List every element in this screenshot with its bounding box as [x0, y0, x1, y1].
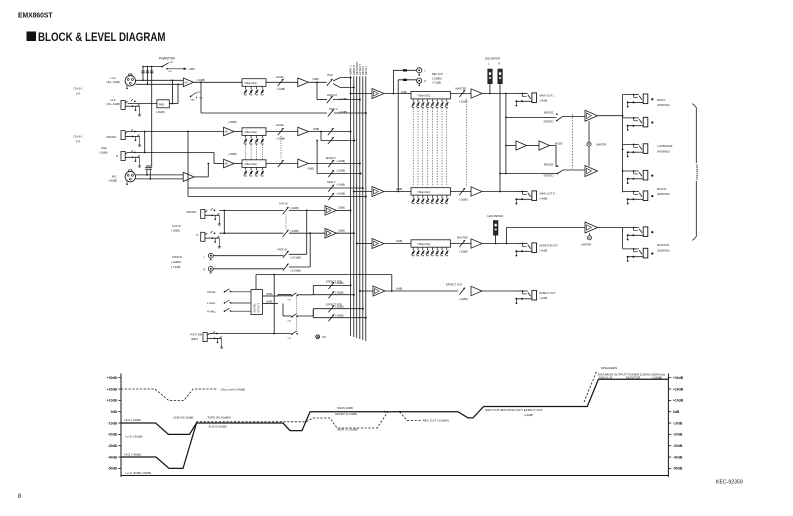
svg-text:LEVEL: LEVEL: [276, 123, 285, 127]
svg-text:(-10dB): (-10dB): [459, 198, 468, 202]
svg-text:TAPE IN: TAPE IN: [172, 255, 182, 259]
svg-text:SPEAKERS: SPEAKERS: [601, 366, 617, 370]
svg-text:(-10dB): (-10dB): [337, 168, 346, 172]
svg-text:EFFECT(-10dB): EFFECT(-10dB): [335, 412, 357, 416]
svg-text:H HALL: H HALL: [207, 309, 217, 313]
svg-text:LEVEL: LEVEL: [276, 75, 285, 79]
svg-text:(-10dB): (-10dB): [335, 290, 344, 294]
svg-text:+48V: +48V: [188, 67, 195, 71]
svg-text:LED METER: LED METER: [488, 214, 503, 218]
svg-text:(-10dB): (-10dB): [459, 100, 468, 104]
svg-text:-20dB: -20dB: [673, 433, 683, 437]
svg-text:(-10dB): (-10dB): [277, 87, 286, 91]
svg-text:CH IN: CH IN: [74, 135, 82, 139]
svg-text:MONITOR: MONITOR: [626, 375, 641, 379]
svg-text:0dB: 0dB: [673, 410, 680, 414]
svg-text:(-10dB): (-10dB): [228, 152, 237, 156]
svg-text:LINE: LINE: [101, 146, 107, 150]
svg-text:MAIN OUT L: MAIN OUT L: [540, 94, 555, 98]
svg-text:(-10dBV): (-10dBV): [432, 77, 442, 80]
svg-text:(0dB): (0dB): [266, 292, 272, 296]
svg-text:(0dB): (0dB): [313, 127, 319, 131]
svg-text:REC OUT (-10dBV): REC OUT (-10dBV): [423, 419, 449, 423]
svg-text:TAPE IN(-10dBV): TAPE IN(-10dBV): [208, 416, 231, 420]
svg-text:MON 1: MON 1: [364, 65, 368, 74]
svg-text:STEREO: STEREO: [544, 121, 554, 124]
svg-text:7-8: 7-8: [76, 139, 81, 143]
svg-text:(+4dB): (+4dB): [540, 99, 548, 103]
svg-text:+20dB: +20dB: [107, 387, 118, 391]
svg-text:MIC: MIC: [112, 175, 117, 179]
svg-text:AUX IN: AUX IN: [172, 224, 181, 228]
svg-text:8: 8: [18, 493, 22, 500]
svg-text:(+24dB): (+24dB): [652, 375, 663, 379]
svg-text:(-10dB): (-10dB): [337, 182, 346, 186]
svg-text:MON 2: MON 2: [327, 180, 336, 184]
svg-text:(-10dB): (-10dB): [197, 78, 206, 82]
svg-text:7-Band EQ: 7-Band EQ: [417, 190, 430, 194]
svg-text:BRIDGE: BRIDGE: [544, 111, 554, 114]
svg-text:7-Band EQ: 7-Band EQ: [417, 242, 430, 246]
svg-text:DIGITAL: DIGITAL: [254, 303, 257, 313]
svg-text:KEC-92359: KEC-92359: [716, 480, 743, 486]
svg-text:LIMITER: LIMITER: [596, 143, 606, 147]
svg-text:OFF: OFF: [196, 92, 201, 94]
svg-text:-40dB: -40dB: [673, 455, 683, 459]
svg-text:R: R: [197, 233, 199, 237]
svg-text:LIMITER: LIMITER: [581, 243, 591, 247]
svg-text:Hi-Z: Hi-Z: [111, 98, 116, 102]
svg-text:-30dB: -30dB: [108, 444, 118, 448]
svg-text:(-13.0dB): (-13.0dB): [290, 256, 301, 260]
svg-text:(400W/8Ω): (400W/8Ω): [657, 150, 670, 154]
svg-text:-30dB: -30dB: [673, 444, 683, 448]
svg-text:ON: ON: [288, 338, 292, 340]
svg-text:Clip Level (+24dB): Clip Level (+24dB): [221, 387, 246, 391]
svg-text:L/MONO: L/MONO: [186, 210, 196, 214]
svg-text:Lo-Z -60dB (-50dB): Lo-Z -60dB (-50dB): [126, 471, 152, 475]
svg-text:(+4dB): (+4dB): [524, 413, 533, 417]
svg-text:0dB: 0dB: [111, 410, 118, 414]
svg-text:MAIN (0dB): MAIN (0dB): [337, 406, 353, 410]
svg-text:EFFECT OUT: EFFECT OUT: [540, 291, 557, 295]
svg-text:LINE IN(-10dB): LINE IN(-10dB): [173, 416, 194, 420]
svg-text:Hi-Z (-40dB): Hi-Z (-40dB): [125, 452, 142, 456]
svg-text:LED METER: LED METER: [485, 57, 500, 61]
svg-text:ON: ON: [168, 71, 172, 73]
svg-text:(0dB): (0dB): [396, 187, 402, 191]
svg-text:EMX860ST: EMX860ST: [18, 11, 53, 20]
svg-text:EFFECT OUT: EFFECT OUT: [446, 282, 463, 286]
svg-text:-40dB: -40dB: [108, 455, 118, 459]
svg-text:(-10dB): (-10dB): [99, 151, 108, 155]
svg-text:(-10dB): (-10dB): [339, 97, 348, 101]
svg-text:R: R: [204, 267, 206, 271]
svg-text:(0dB): (0dB): [308, 167, 314, 171]
svg-text:-10dB: -10dB: [108, 421, 118, 425]
svg-text:OFF: OFF: [169, 62, 174, 64]
svg-text:MONITOR: MONITOR: [657, 243, 669, 247]
svg-text:(-10dB): (-10dB): [171, 229, 180, 233]
svg-text:Hi-Z (-10dB): Hi-Z (-10dB): [125, 418, 142, 422]
svg-text:+30dB: +30dB: [107, 376, 118, 380]
svg-text:EFFECT: EFFECT: [326, 156, 337, 160]
svg-text:1-6: 1-6: [76, 91, 81, 95]
svg-text:(0dB): (0dB): [313, 77, 319, 81]
svg-text:3-Band EQ: 3-Band EQ: [244, 163, 256, 166]
svg-text:ON: ON: [288, 321, 292, 323]
svg-text:(-13.0dB): (-13.0dB): [290, 268, 301, 272]
svg-text:L+R BRIDGE: L+R BRIDGE: [657, 144, 673, 148]
svg-text:(-60~-16dB): (-60~-16dB): [106, 80, 120, 84]
svg-text:(-10dB): (-10dB): [459, 250, 468, 254]
svg-text:3-Band EQ: 3-Band EQ: [244, 82, 256, 85]
svg-text:(0dB): (0dB): [396, 286, 402, 290]
svg-text:(-10dB): (-10dB): [335, 313, 344, 317]
svg-text:(0dB): (0dB): [266, 300, 272, 304]
svg-text:(-10dB): (-10dB): [339, 110, 348, 114]
svg-text:MODE: MODE: [555, 141, 563, 145]
svg-text:(-10dB): (-10dB): [337, 191, 346, 195]
svg-text:(-26dB): (-26dB): [156, 110, 165, 114]
svg-text:-10dB: -10dB: [673, 421, 683, 425]
svg-text:(-60dB): (-60dB): [109, 179, 118, 183]
svg-text:(-50~-10dB): (-50~-10dB): [106, 102, 120, 106]
svg-text:R: R: [498, 63, 500, 66]
svg-text:(0dB): (0dB): [401, 91, 407, 94]
svg-text:(200W/4Ω): (200W/4Ω): [657, 103, 670, 107]
svg-text:FOOT SW: FOOT SW: [190, 333, 203, 337]
svg-text:AUX IN (0dB): AUX IN (0dB): [209, 425, 227, 429]
svg-text:7-Band EQ: 7-Band EQ: [417, 94, 430, 98]
svg-text:MAIN L: MAIN L: [657, 98, 666, 102]
svg-text:(-10dB): (-10dB): [290, 206, 299, 210]
svg-text:R: R: [116, 154, 118, 158]
svg-text:(+4dB): (+4dB): [540, 296, 548, 300]
svg-text:MASTER: MASTER: [457, 235, 468, 239]
svg-text:MASTER: MASTER: [456, 86, 467, 90]
svg-text:+30dB: +30dB: [673, 376, 684, 380]
svg-text:BLOCK & LEVEL DIAGRAM: BLOCK & LEVEL DIAGRAM: [38, 30, 166, 44]
svg-text:CH IN: CH IN: [74, 87, 82, 91]
svg-text:PAD: PAD: [159, 102, 165, 106]
svg-text:Lo-Z: Lo-Z: [111, 76, 117, 80]
svg-text:Lo-Z (-30dB): Lo-Z (-30dB): [126, 435, 143, 439]
svg-text:EFFECT: EFFECT: [258, 303, 261, 313]
svg-text:(-7.5dB): (-7.5dB): [171, 265, 181, 269]
svg-text:BA: BA: [225, 163, 229, 166]
svg-text:-20dB: -20dB: [108, 433, 118, 437]
svg-text:(-10dB): (-10dB): [277, 137, 286, 141]
svg-text:BA: BA: [225, 131, 229, 134]
svg-text:STEREO: STEREO: [544, 175, 554, 178]
svg-text:+10dB: +10dB: [107, 399, 118, 403]
svg-text:MAIN R: MAIN R: [657, 187, 666, 191]
svg-text:-50dB: -50dB: [108, 467, 118, 471]
svg-text:PAD: PAD: [191, 99, 196, 102]
svg-text:(0dB): (0dB): [339, 206, 345, 210]
svg-text:(+4dB): (+4dB): [540, 197, 548, 201]
svg-text:MON 2: MON 2: [329, 107, 338, 111]
svg-text:ON: ON: [288, 300, 292, 302]
svg-text:(-7.5dB): (-7.5dB): [432, 82, 441, 85]
svg-text:(0dB): (0dB): [396, 239, 402, 243]
svg-text:(-10dB): (-10dB): [335, 281, 344, 285]
svg-text:TAPE IN: TAPE IN: [277, 247, 287, 251]
svg-text:3-Band EQ: 3-Band EQ: [244, 131, 256, 134]
svg-text:-50dB: -50dB: [673, 467, 683, 471]
svg-text:SPEAKERS: SPEAKERS: [695, 164, 699, 180]
svg-text:+10dB: +10dB: [673, 399, 684, 403]
svg-text:+20dB: +20dB: [673, 387, 684, 391]
svg-text:L HALL: L HALL: [207, 301, 216, 305]
svg-text:(+4dB): (+4dB): [540, 249, 548, 253]
svg-text:R: R: [425, 80, 427, 83]
svg-text:MONITOR OUT: MONITOR OUT: [540, 244, 559, 248]
svg-text:(-10dB): (-10dB): [459, 297, 468, 301]
svg-text:AUX IN: AUX IN: [279, 202, 288, 206]
svg-text:(-10dBV): (-10dBV): [171, 260, 182, 264]
svg-text:L/MONO: L/MONO: [106, 135, 116, 139]
svg-text:(REV): (REV): [191, 337, 198, 341]
svg-text:MAIN OUT•MONITOR OUT• EFFECT: MAIN OUT•MONITOR OUT• EFFECT OUT: [485, 408, 543, 412]
svg-text:(-10dB): (-10dB): [335, 304, 344, 308]
svg-text:MON 2 (-16dB): MON 2 (-16dB): [337, 428, 357, 432]
svg-text:MAIN OUT R: MAIN OUT R: [540, 192, 555, 196]
svg-text:(0dB): (0dB): [339, 228, 345, 232]
svg-text:REC OUT: REC OUT: [432, 73, 444, 76]
svg-text:(200W/4Ω): (200W/4Ω): [657, 192, 670, 196]
svg-text:(-10dB): (-10dB): [290, 229, 299, 233]
svg-text:PHANTOM: PHANTOM: [159, 57, 175, 61]
svg-text:(-10dB): (-10dB): [337, 159, 346, 163]
svg-text:(200W/4Ω): (200W/4Ω): [657, 249, 670, 253]
svg-text:PAN: PAN: [328, 73, 333, 77]
svg-text:VOCAL: VOCAL: [207, 290, 216, 294]
svg-text:BRIDGE: BRIDGE: [544, 163, 554, 166]
svg-text:HA: HA: [185, 81, 189, 84]
svg-text:(-10dB): (-10dB): [228, 120, 237, 124]
svg-text:MAIN L-R: MAIN L-R: [599, 375, 613, 379]
svg-text:ON: ON: [322, 336, 326, 339]
